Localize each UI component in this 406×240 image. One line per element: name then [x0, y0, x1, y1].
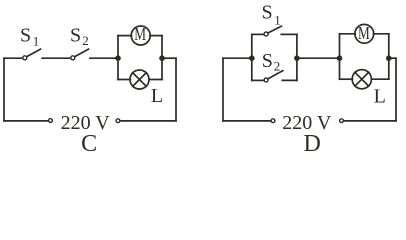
- wire: D S1 branch left: [252, 33, 264, 35]
- junction node (C block right): [159, 55, 165, 61]
- svg-text:C: C: [81, 131, 97, 155]
- svg-text:2: 2: [82, 33, 89, 48]
- switch S1 (D) circle: [264, 32, 268, 36]
- switch S1 (D) lever: [268, 26, 282, 33]
- terminal (D right): [340, 119, 344, 123]
- terminal (D left): [271, 119, 275, 123]
- label S2 (D): [262, 50, 281, 73]
- wire: C bottom branch right: [149, 79, 162, 81]
- lamp L (C) circle: [130, 70, 149, 89]
- wire: C right vertical: [175, 58, 177, 121]
- junction node (D ML block right): [386, 55, 392, 61]
- label S2 (C): [70, 24, 89, 48]
- wire: C top branch left: [118, 35, 132, 37]
- wire: C parallel block left vertical: [117, 36, 119, 80]
- svg-text:S: S: [262, 50, 273, 72]
- wire: D bottom branch left: [340, 78, 353, 80]
- wire: C bottom branch left: [118, 79, 130, 81]
- svg-text:M: M: [358, 23, 370, 43]
- wire: D S2 branch left: [252, 79, 264, 81]
- wire: D output to right vertical: [389, 57, 396, 59]
- lamp L (C) cross: [133, 73, 147, 87]
- wire: C from S2 to parallel block: [90, 57, 118, 59]
- switch S2 (D) lever: [268, 71, 283, 79]
- switch S1 (C) circle: [23, 56, 27, 60]
- wire: D top branch right: [374, 33, 389, 35]
- wire: D left vertical: [222, 58, 224, 121]
- wire: D switch block left vertical: [251, 34, 253, 80]
- wire: D S1 branch right: [281, 33, 297, 35]
- wire: C bottom-left segment: [4, 120, 48, 122]
- svg-text:D: D: [304, 131, 321, 155]
- wire: C between S1 and S2: [42, 57, 70, 59]
- wire: D bottom-left segment: [223, 120, 271, 122]
- wire: D bottom branch right: [371, 78, 388, 80]
- wire: D bottom-right segment: [344, 120, 396, 122]
- motor M (D) circle: [355, 24, 374, 43]
- motor M (C) circle: [131, 26, 150, 45]
- label S1 (C): [20, 24, 39, 48]
- wire: C top-left segment: [4, 57, 23, 59]
- label S1 (D): [262, 2, 281, 28]
- lamp L (D) cross: [355, 72, 369, 86]
- wire: D right vertical: [395, 58, 397, 121]
- wire: D ML block left vertical: [339, 34, 341, 79]
- wire: C output to right vertical: [162, 57, 176, 59]
- junction node (D switch block right): [294, 55, 300, 61]
- switch S2 (C) circle: [71, 56, 75, 60]
- wire: D S2 branch right: [282, 79, 297, 81]
- svg-text:S: S: [20, 24, 31, 46]
- junction node (C block left): [115, 55, 121, 61]
- svg-text:S: S: [70, 24, 81, 46]
- svg-text:S: S: [262, 2, 273, 24]
- junction node (D switch block left): [249, 55, 255, 61]
- terminal (C left): [49, 119, 53, 123]
- svg-text:1: 1: [33, 33, 40, 48]
- lamp L (D) circle: [352, 70, 371, 89]
- wire: D between switch block and ML block: [297, 57, 340, 59]
- svg-text:L: L: [374, 85, 386, 107]
- svg-text:1: 1: [274, 12, 281, 27]
- svg-text:2: 2: [274, 58, 281, 73]
- switch S1 (C) lever: [27, 49, 41, 57]
- wire: D top-left segment: [223, 57, 252, 59]
- wire: C top branch right: [150, 35, 162, 37]
- switch S2 (C) lever: [75, 49, 89, 57]
- svg-text:L: L: [151, 85, 163, 107]
- svg-text:M: M: [134, 24, 146, 44]
- wire: D top branch left: [340, 33, 356, 35]
- terminal (C right): [116, 119, 120, 123]
- wire: C left vertical: [3, 58, 5, 121]
- switch S2 (D) circle: [264, 78, 268, 82]
- wire: C bottom-right segment: [121, 120, 177, 122]
- wire: D switch block right vertical: [296, 34, 298, 80]
- wire: C parallel block right vertical: [161, 36, 163, 80]
- junction node (D ML block left): [337, 55, 343, 61]
- wire: D ML block right vertical: [388, 34, 390, 79]
